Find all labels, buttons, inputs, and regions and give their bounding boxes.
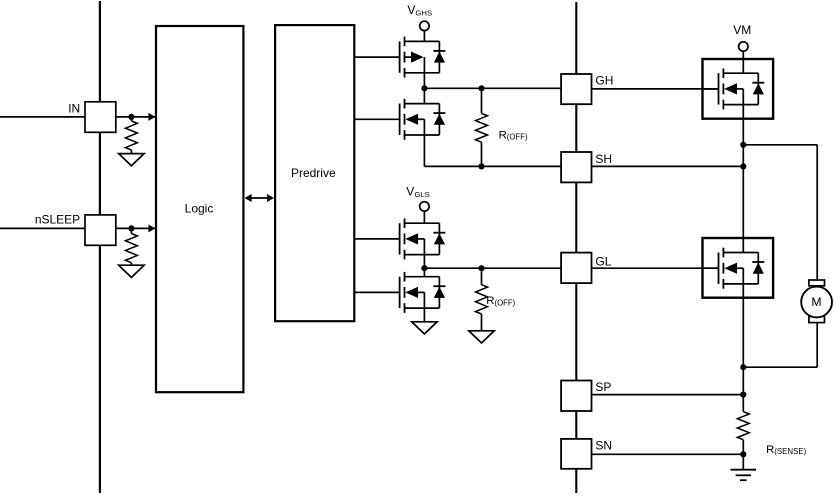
wire: phase to motor — [743, 144, 817, 146]
pin GL — [561, 253, 591, 284]
wire: SH pin to phase node — [592, 165, 744, 167]
pin SP — [561, 381, 591, 412]
wire: motor bottom return — [743, 366, 817, 368]
wire: GL net to pin — [424, 267, 561, 269]
node: nSLEEP pulldown junction — [128, 225, 134, 231]
pin SH — [561, 152, 591, 182]
wire: device right boundary — [575, 2, 577, 493]
node: SH junction — [740, 163, 746, 169]
wire: phase node vertical (SH) — [742, 105, 744, 253]
wire: GH node vertical — [423, 73, 425, 104]
node: IN pulldown junction — [128, 114, 134, 120]
resistor R(SENSE) — [742, 395, 744, 412]
transistor: predrive low-side sink FET — [354, 291, 399, 293]
transistor: predrive high-side sink FET — [354, 118, 399, 120]
wire: nSLEEP to Logic with arrow — [116, 227, 155, 229]
transistor: predrive low-side source FET — [354, 238, 399, 240]
wire: IN to Logic with arrow — [116, 116, 155, 118]
transistor: external high-side NFET (boxed) — [703, 59, 774, 119]
wire: GL pin to external FET gate — [592, 267, 719, 269]
resistor R(OFF) low-side — [481, 268, 483, 285]
block: Logic — [156, 26, 243, 392]
svg-text:VM: VM — [733, 23, 751, 37]
svg-text:GL: GL — [595, 255, 611, 269]
ground: power ground (earth) — [742, 454, 744, 469]
wire: SN pin to sense node — [592, 453, 744, 455]
wire: IN input from left edge — [0, 116, 85, 118]
ground: IN pulldown — [119, 154, 144, 166]
block: Predrive — [275, 25, 354, 321]
motor M — [809, 280, 825, 286]
wire: SP pin to sense node — [592, 394, 744, 396]
node: GL junction at FETs — [421, 265, 427, 271]
svg-text:Predrive: Predrive — [291, 166, 336, 180]
resistor R(OFF) high-side — [481, 88, 483, 113]
wire: nSLEEP input from left edge — [0, 227, 85, 229]
wire: GL node vertical — [423, 255, 425, 277]
node: phase to motor junction — [740, 142, 746, 148]
pin GH — [561, 74, 591, 104]
wire: device left boundary — [99, 1, 101, 493]
transistor: predrive high-side source FET — [354, 56, 399, 58]
svg-text:SP: SP — [595, 380, 611, 394]
wire: low-side FET source down — [742, 284, 744, 395]
wire: Logic-Predrive bidirectional arrow — [250, 197, 270, 199]
node: GH / R(OFF) junction — [478, 85, 484, 91]
transistor: external low-side NFET (boxed) — [703, 238, 774, 298]
node: source/motor junction — [740, 364, 746, 370]
ground: R(OFF) low-side — [469, 331, 494, 343]
svg-text:SH: SH — [595, 152, 612, 166]
pin nSLEEP (terminal box) — [85, 215, 116, 245]
svg-text:IN: IN — [68, 102, 80, 116]
svg-text:Logic: Logic — [185, 201, 214, 215]
wire: GH pin to external FET gate — [592, 88, 719, 90]
node: SN junction — [740, 451, 746, 457]
node: GL / R(OFF) junction — [478, 265, 484, 271]
node: SH / R(OFF) junction — [478, 163, 484, 169]
svg-text:GH: GH — [595, 74, 613, 88]
resistor: nSLEEP pulldown — [130, 228, 132, 233]
ground: nSLEEP pulldown — [119, 265, 144, 277]
wire: GH net to pin — [424, 87, 561, 89]
pin IN (terminal box) — [85, 102, 116, 133]
resistor: IN pulldown — [130, 117, 132, 121]
wire: low-side sink FET source to ground — [423, 308, 425, 322]
node: SP junction — [740, 392, 746, 398]
wire: high-side sink FET source to SH — [423, 135, 425, 166]
svg-text:SN: SN — [595, 438, 612, 452]
svg-text:M: M — [811, 295, 821, 309]
svg-text:nSLEEP: nSLEEP — [35, 213, 80, 227]
node: GH junction at FETs — [421, 85, 427, 91]
pin SN — [561, 439, 591, 469]
ground: predrive low-side — [412, 322, 437, 334]
